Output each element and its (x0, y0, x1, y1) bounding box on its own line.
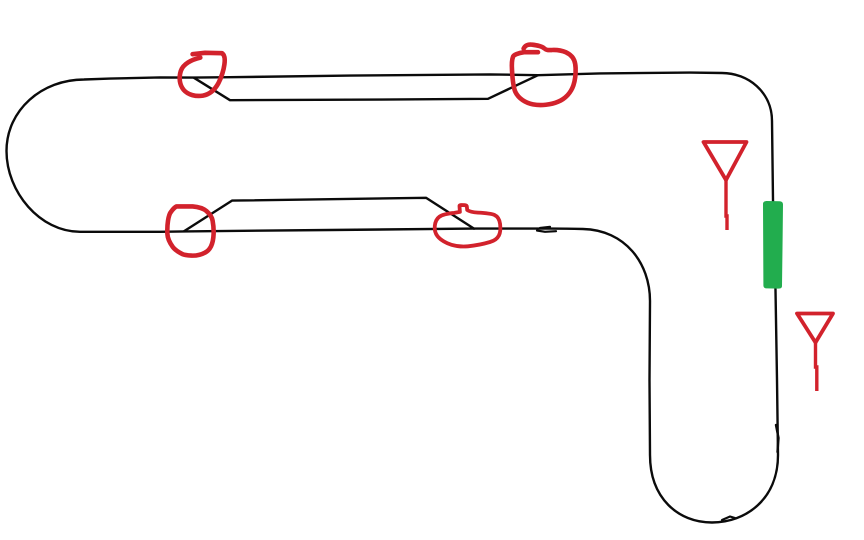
wire: bottom passing siding (184, 198, 474, 231)
turnout circle T4 (bottom-right switch) (435, 205, 501, 247)
wire: main loop track (left U-turn, top straight, right corner, right vertical, bottom U-turn, lower straight) (7, 73, 779, 523)
green block marker on right vertical track (763, 201, 783, 289)
signal S1 stem (726, 180, 727, 230)
turnout circle T3 (bottom-left switch) (167, 206, 213, 255)
wire: top passing siding (194, 75, 538, 100)
signal S2 (lower right) (797, 314, 833, 343)
signal S2 stem (816, 343, 817, 392)
signal S1 (upper, left of right vertical) (704, 142, 747, 180)
wire: pen retrace artifact on bottom U-turn (722, 517, 735, 521)
wire: pen retrace artifact on lower straight (537, 227, 556, 232)
wire: pen retrace artifact on right vertical (776, 425, 779, 452)
turnout circle T2 (top-right switch) (512, 45, 576, 105)
turnout circle T1 (top-left switch) (180, 53, 225, 96)
